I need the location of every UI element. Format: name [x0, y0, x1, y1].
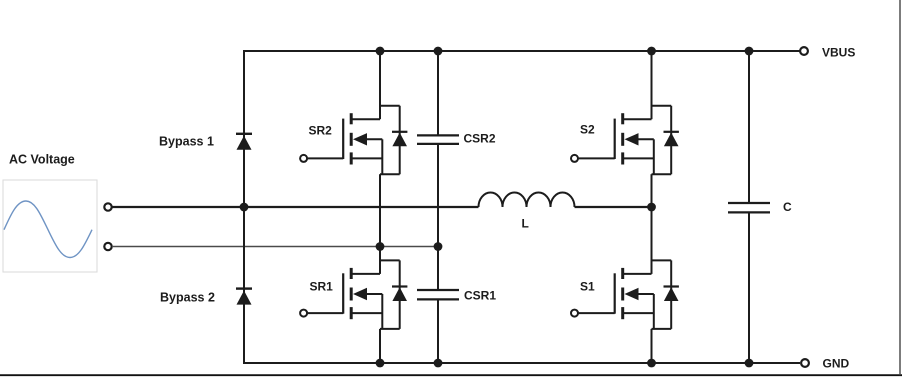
terminal GND — [801, 359, 809, 367]
svg-text:CSR2: CSR2 — [464, 132, 496, 146]
wire C top — [748, 51, 750, 203]
S2 gate bar — [614, 119, 616, 159]
C plates — [728, 202, 770, 204]
SR1 body diode — [380, 259, 400, 261]
wire S1 source — [637, 293, 654, 295]
bottom border — [0, 374, 902, 376]
S1 channel — [621, 268, 624, 279]
node CSR leg / top rail junction — [434, 47, 443, 56]
svg-text:VBUS: VBUS — [822, 46, 855, 60]
diode Bypass 1 — [236, 134, 252, 150]
node S leg / top rail junction — [647, 47, 656, 56]
wire CSR2 top — [437, 51, 439, 135]
wire S2 drain — [651, 51, 653, 119]
transistor SR1 — [343, 247, 407, 364]
node bypass leg / upper AC line junction — [240, 203, 249, 212]
node switch node at inductor — [647, 203, 656, 212]
terminal SR1 gate — [300, 310, 307, 317]
svg-text:Bypass 2: Bypass 2 — [160, 291, 215, 305]
transistor SR2 — [343, 51, 407, 247]
svg-text:L: L — [522, 217, 529, 231]
svg-text:S2: S2 — [580, 123, 595, 137]
wire SR2 source — [365, 138, 382, 140]
CSR1 plates — [417, 289, 459, 291]
S2 body arrow — [625, 133, 639, 145]
wire SR2 drain — [379, 51, 381, 119]
svg-text:GND: GND — [823, 357, 850, 371]
node CSR leg / lower AC line junction — [434, 242, 443, 251]
S1 body diode — [652, 259, 672, 261]
SR1 channel — [350, 268, 353, 279]
wire SR1 gate — [307, 312, 343, 314]
transistor S1 — [615, 207, 679, 363]
SR1 body arrow — [353, 288, 367, 300]
S2 channel — [621, 113, 624, 124]
node SR leg / lower AC line junction — [376, 242, 385, 251]
svg-text:S1: S1 — [580, 280, 595, 294]
svg-text:SR2: SR2 — [309, 124, 333, 138]
wire SR1 drain — [379, 247, 381, 274]
wire S2 gate — [578, 157, 615, 159]
wire lower AC line to SR/CSR midpoint — [112, 246, 438, 248]
wire bypass leg plus VBUS top rail and GND bottom rail — [244, 51, 800, 363]
svg-text:C: C — [783, 200, 792, 214]
node CSR leg / bottom rail junction — [434, 359, 443, 368]
transistor S2 — [615, 51, 679, 207]
node S leg / bottom rail junction — [647, 359, 656, 368]
svg-text:Bypass 1: Bypass 1 — [159, 135, 214, 149]
wire C bottom — [748, 212, 750, 363]
CSR2 plates — [417, 134, 459, 136]
diode Bypass 2 — [236, 289, 252, 305]
SR2 body arrow — [353, 133, 367, 145]
terminal VBUS — [800, 47, 808, 55]
SR2 gate bar — [342, 119, 344, 159]
wire upper AC line to inductor — [112, 206, 479, 208]
S1 gate bar — [614, 273, 616, 313]
svg-text:CSR1: CSR1 — [464, 289, 496, 303]
wire inductor to switch node — [575, 206, 652, 208]
AC source box — [3, 180, 97, 272]
SR2 channel — [350, 113, 353, 124]
svg-text:AC Voltage: AC Voltage — [9, 153, 75, 167]
capacitor C — [728, 51, 770, 363]
terminal S2 gate — [571, 155, 578, 162]
node C leg / bottom rail junction — [745, 359, 754, 368]
wire S1 drain — [651, 207, 653, 274]
wire CSR2 bottom — [437, 144, 439, 247]
S1 body arrow — [625, 288, 639, 300]
wire S2 source — [637, 138, 654, 140]
wire CSR1 bottom — [437, 299, 439, 363]
wire CSR1 top — [437, 247, 439, 291]
terminal SR2 gate — [300, 155, 307, 162]
inductor L — [479, 193, 575, 208]
wire SR2 gate — [307, 157, 343, 159]
right border — [899, 0, 901, 375]
node SR leg / top rail junction — [376, 47, 385, 56]
AC voltage sine wave — [4, 201, 92, 258]
node SR leg / bottom rail junction — [376, 359, 385, 368]
terminal AC line lower — [104, 243, 111, 250]
capacitor CSR1 — [417, 247, 459, 364]
S2 body diode — [652, 105, 672, 107]
wire SR1 source — [365, 293, 382, 295]
terminal S1 gate — [571, 310, 578, 317]
svg-text:SR1: SR1 — [310, 280, 334, 294]
capacitor CSR2 — [417, 51, 459, 247]
terminal AC line upper — [104, 203, 111, 210]
wire S1 gate — [578, 312, 615, 314]
SR1 gate bar — [342, 273, 344, 313]
node C leg / top rail junction — [745, 47, 754, 56]
SR2 body diode — [380, 105, 400, 107]
